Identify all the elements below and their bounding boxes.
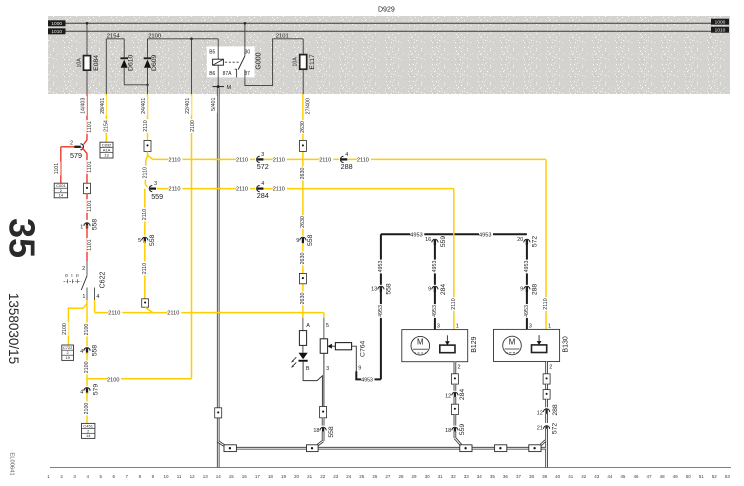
svg-text:4953: 4953	[479, 233, 491, 239]
svg-text:558: 558	[385, 283, 392, 295]
svg-text:10A: 10A	[293, 57, 299, 67]
svg-text:1101: 1101	[87, 239, 93, 250]
svg-text:16: 16	[425, 237, 431, 243]
wire lamp gnd b	[322, 431, 325, 441]
svg-text:5/401: 5/401	[211, 98, 217, 111]
inline connector 2110 b	[142, 299, 149, 307]
wire 2100 left branch	[68, 304, 87, 346]
wire 2100 band	[148, 38, 219, 40]
svg-text:49: 49	[673, 474, 679, 479]
svg-text:D609: D609	[151, 54, 158, 70]
svg-text:25: 25	[359, 474, 365, 479]
svg-text:14: 14	[216, 474, 222, 479]
svg-text:48: 48	[660, 474, 666, 479]
wire B130 g2	[545, 399, 548, 408]
wire B129 g1	[454, 384, 457, 391]
switch C622 lever	[81, 276, 87, 290]
svg-text:1: 1	[456, 323, 459, 329]
svg-text:2110: 2110	[142, 209, 148, 220]
svg-text:C622: C622	[100, 272, 107, 289]
svg-text:4: 4	[80, 349, 83, 355]
svg-text:558: 558	[91, 219, 98, 231]
svg-text:572: 572	[257, 162, 269, 171]
bus connector 1	[224, 445, 236, 452]
wire 4953 b129	[434, 240, 436, 330]
svg-text:40: 40	[555, 474, 561, 479]
ground bus seg2	[318, 447, 460, 450]
svg-text:2110: 2110	[273, 157, 285, 163]
wire 24/401	[147, 94, 149, 140]
wire B129 pin2	[454, 362, 457, 374]
svg-text:B6: B6	[209, 71, 215, 77]
svg-text:10: 10	[163, 474, 169, 479]
wire 4953 b130	[526, 240, 528, 329]
wire B129 g2	[454, 397, 457, 404]
fuse E084 10A	[84, 56, 91, 71]
wire B130 pin2	[545, 362, 548, 374]
connector 9 288	[523, 285, 531, 290]
wire 2110 drop B129	[453, 189, 455, 330]
svg-text:24: 24	[346, 474, 352, 479]
svg-text:87: 87	[244, 71, 250, 77]
svg-text:50: 50	[686, 474, 692, 479]
svg-text:2154: 2154	[103, 120, 109, 132]
connector 5 558	[141, 236, 149, 241]
svg-text:28: 28	[398, 474, 404, 479]
label 2100 m1	[84, 323, 91, 337]
svg-text:30: 30	[245, 50, 251, 56]
wire C764 pin9	[352, 346, 357, 371]
wire E084 out	[86, 70, 88, 94]
svg-text:3: 3	[326, 366, 329, 372]
svg-text:20: 20	[517, 237, 523, 243]
wire D609 column	[147, 39, 149, 59]
svg-text:27: 27	[385, 474, 391, 479]
svg-text:3: 3	[154, 181, 157, 187]
svg-text:9: 9	[296, 238, 299, 244]
net 1010 label right	[711, 27, 729, 33]
svg-text:M: M	[227, 85, 232, 91]
label 4953 e	[524, 260, 531, 274]
box C001	[54, 183, 67, 198]
svg-text:2630: 2630	[300, 168, 306, 180]
svg-text:284: 284	[459, 389, 466, 401]
svg-text:2100: 2100	[84, 403, 90, 415]
wire 2110 line3	[94, 300, 96, 313]
svg-text:2110: 2110	[108, 311, 120, 317]
svg-text:2100: 2100	[107, 377, 119, 383]
wire E117 out	[302, 69, 304, 94]
label 1101 e	[87, 238, 94, 252]
svg-text:4953: 4953	[432, 261, 438, 273]
svg-text:E117: E117	[309, 54, 316, 70]
wire B130 g1	[545, 384, 548, 390]
svg-text:42: 42	[581, 474, 587, 479]
relay lever	[238, 56, 245, 70]
svg-text:18: 18	[445, 428, 451, 434]
svg-text:47: 47	[646, 474, 652, 479]
svg-text:M: M	[417, 338, 424, 347]
svg-text:D610: D610	[128, 54, 135, 70]
label 2110 drop2	[543, 297, 550, 311]
label 4953 c	[432, 260, 439, 274]
svg-text:288: 288	[341, 162, 353, 171]
inline connector B130 b	[543, 390, 550, 400]
connector 4 288	[339, 156, 344, 164]
svg-text:12: 12	[190, 474, 196, 479]
box C451	[82, 423, 95, 438]
wire 1101 d	[86, 194, 88, 220]
svg-text:21: 21	[307, 474, 313, 479]
svg-text:284: 284	[440, 284, 447, 296]
label 5/401	[211, 96, 218, 113]
svg-text:558: 558	[91, 345, 98, 357]
svg-text:2110: 2110	[543, 298, 549, 309]
label 2110 v4	[142, 208, 149, 222]
blower motor B130	[494, 329, 560, 361]
svg-text:13: 13	[104, 153, 109, 158]
svg-text:2110: 2110	[142, 263, 148, 274]
label 2110 v3	[142, 166, 149, 180]
label 2100 m2	[84, 360, 91, 374]
LED symbol	[299, 353, 308, 359]
svg-text:B130: B130	[563, 336, 570, 352]
relay dashed link	[225, 61, 240, 63]
svg-text:2100: 2100	[190, 120, 196, 132]
svg-text:16: 16	[242, 474, 248, 479]
svg-text:579: 579	[70, 151, 82, 160]
svg-text:36: 36	[503, 474, 509, 479]
svg-text:0: 0	[65, 273, 68, 279]
connector 579 pin2	[79, 143, 84, 151]
label 4953 b	[378, 304, 385, 318]
bus connector 4	[495, 445, 507, 452]
relay contact 87A	[236, 69, 238, 77]
wire pin 5	[323, 313, 325, 318]
svg-text:559: 559	[440, 236, 447, 248]
inline connector B129 a	[451, 374, 458, 384]
svg-text:1101: 1101	[87, 200, 93, 211]
svg-text:1010: 1010	[715, 28, 726, 34]
svg-text:4953: 4953	[524, 305, 530, 317]
svg-text:2110: 2110	[169, 187, 181, 193]
relay pin B5 wire	[217, 39, 219, 59]
switch pin 1 wire	[86, 288, 88, 301]
svg-text:B: B	[306, 366, 310, 372]
svg-text:19: 19	[281, 474, 287, 479]
label 27/400	[305, 96, 312, 116]
svg-text:C764: C764	[360, 340, 367, 356]
label 4953 a	[378, 260, 385, 274]
svg-text:17: 17	[255, 474, 261, 479]
svg-text:2100: 2100	[84, 324, 90, 336]
labels 2110 line2	[169, 186, 183, 192]
svg-text:284: 284	[257, 191, 269, 200]
label 2630 b	[300, 167, 307, 181]
box C722	[62, 345, 74, 360]
connector 4 558	[83, 346, 91, 351]
wire 2154	[105, 39, 107, 94]
label 2100 r	[190, 119, 197, 133]
svg-text:31: 31	[438, 474, 444, 479]
net 1010 label left	[48, 28, 66, 34]
wire 2100 drop 26/401	[191, 39, 193, 94]
svg-text:559: 559	[459, 424, 466, 436]
svg-text:4953: 4953	[361, 377, 373, 383]
label 2110 v1	[143, 119, 150, 133]
fuse E117 10A	[300, 55, 307, 70]
svg-text:E084: E084	[93, 55, 100, 71]
wire 2110 join	[145, 307, 153, 312]
svg-text:288: 288	[552, 404, 559, 416]
svg-text:558: 558	[149, 234, 156, 246]
svg-text:41: 41	[568, 474, 574, 479]
LED arrows	[292, 357, 297, 362]
wire crossing overdraw	[214, 158, 224, 160]
svg-text:1101: 1101	[87, 161, 93, 172]
svg-text:45: 45	[620, 474, 626, 479]
svg-text:34: 34	[477, 474, 483, 479]
svg-text:1: 1	[80, 224, 83, 230]
label 1101 c	[87, 160, 94, 174]
label 1101 branch	[54, 162, 61, 176]
wire B130 g3	[545, 414, 548, 423]
svg-text:3: 3	[437, 323, 440, 329]
label 2100 lb	[62, 322, 69, 336]
relay pin B6 wire	[217, 65, 219, 86]
switch C622 pin2 wire	[86, 261, 88, 276]
svg-text:572: 572	[551, 423, 558, 435]
wire 2110 drop B130	[545, 159, 547, 329]
wire 4953 link	[356, 371, 381, 379]
svg-text:51: 51	[699, 474, 705, 479]
svg-text:4953: 4953	[432, 305, 438, 317]
svg-text:I: I	[71, 273, 72, 279]
connector 18 559	[451, 426, 459, 431]
label 2110 v5	[142, 262, 149, 276]
component C764	[335, 343, 351, 350]
svg-text:2110: 2110	[143, 120, 149, 131]
bus connector 3	[460, 445, 472, 452]
svg-text:2100: 2100	[62, 323, 68, 335]
svg-text:2110: 2110	[273, 187, 285, 193]
svg-text:14: 14	[59, 192, 64, 197]
resistor lamp A	[299, 331, 306, 346]
svg-text:II: II	[76, 273, 79, 279]
wire B130 g4	[545, 429, 548, 468]
wire E084 feed	[86, 23, 88, 55]
svg-text:A: A	[306, 323, 310, 329]
svg-text:4953: 4953	[378, 261, 384, 273]
label 4953 f	[524, 304, 531, 318]
ground bus seg5	[541, 447, 546, 450]
svg-text:13: 13	[371, 286, 377, 292]
wire 4953 vert main	[380, 234, 382, 379]
box C832	[100, 142, 113, 158]
wire B129 g4	[454, 431, 457, 438]
svg-text:2630: 2630	[300, 253, 306, 265]
svg-text:53: 53	[725, 474, 731, 479]
svg-text:2110: 2110	[169, 157, 181, 163]
svg-text:558: 558	[307, 234, 314, 246]
svg-text:2630: 2630	[300, 216, 306, 228]
wire 2100 m3	[86, 392, 88, 423]
svg-text:35: 35	[490, 474, 496, 479]
label 14/403	[80, 96, 87, 116]
svg-text:M: M	[509, 337, 516, 346]
relay M ground	[213, 86, 225, 88]
baseline	[50, 467, 731, 469]
svg-text:15: 15	[229, 474, 235, 479]
diode D610	[120, 57, 128, 59]
svg-text:14: 14	[86, 433, 91, 438]
svg-text:D929: D929	[378, 7, 395, 14]
wire 2110 v2	[147, 151, 149, 156]
bus connector 5	[529, 445, 541, 452]
label 2630 d	[300, 252, 307, 266]
label 1101 a	[87, 120, 94, 134]
inline connector 2110 a	[144, 140, 151, 151]
svg-text:39: 39	[542, 474, 548, 479]
svg-text:22/401: 22/401	[185, 98, 191, 114]
relay G000 body	[207, 46, 255, 77]
svg-text:EL00641: EL00641	[9, 452, 15, 475]
svg-text:33: 33	[464, 474, 470, 479]
wire 2100 m2	[86, 352, 88, 386]
wire 2110 v4	[144, 189, 146, 236]
wire 26/401	[191, 94, 193, 379]
wire 1101 b	[82, 147, 88, 154]
svg-text:2100: 2100	[148, 33, 161, 39]
svg-text:19: 19	[65, 355, 70, 360]
svg-text:28/401: 28/401	[100, 98, 106, 114]
svg-text:2101: 2101	[276, 33, 289, 39]
svg-text:5: 5	[326, 323, 329, 329]
connector 4 284	[255, 185, 260, 193]
wire 2110 line2	[157, 188, 454, 190]
svg-text:29: 29	[411, 474, 417, 479]
wire 14/403	[86, 94, 88, 140]
svg-text:9: 9	[520, 286, 523, 292]
svg-text:3: 3	[261, 152, 264, 158]
label 2154 v	[103, 119, 110, 133]
wire E117 feed	[302, 39, 304, 55]
svg-text:2110: 2110	[236, 157, 248, 163]
svg-text:2: 2	[82, 266, 85, 272]
svg-text:1000: 1000	[715, 20, 726, 26]
svg-text:22: 22	[320, 474, 326, 479]
label 24/401	[141, 96, 148, 116]
inline connector B129 b	[451, 404, 458, 414]
wire 2110 branch1	[148, 155, 153, 159]
label 26/401	[185, 96, 192, 116]
label 28/401	[100, 96, 107, 116]
svg-text:44: 44	[607, 474, 613, 479]
svg-text:30: 30	[425, 474, 431, 479]
svg-text:32: 32	[451, 474, 457, 479]
wire 4953 top	[381, 233, 527, 235]
net 2101	[245, 39, 303, 86]
connector 16 559	[431, 238, 439, 243]
svg-text:12: 12	[445, 394, 451, 400]
svg-text:4: 4	[261, 181, 264, 187]
blower motor B129	[402, 330, 468, 362]
wire 1101 branch	[61, 146, 75, 148]
svg-text:1: 1	[548, 323, 551, 329]
net 1000 label right	[711, 19, 729, 25]
svg-text:4: 4	[345, 152, 348, 158]
svg-text:10A: 10A	[76, 58, 82, 68]
svg-text:13: 13	[203, 474, 209, 479]
wire to conn 579	[82, 140, 88, 147]
wire pin B path	[303, 362, 322, 407]
connector 21 572	[543, 424, 551, 429]
label 4953 link	[361, 377, 374, 383]
relay pin 30 wire	[244, 23, 246, 56]
wire 2100 main	[86, 300, 88, 347]
svg-text:26: 26	[372, 474, 378, 479]
connector 1 558	[83, 221, 91, 226]
svg-text:1101: 1101	[87, 121, 93, 132]
wire to conn 559	[145, 185, 149, 189]
svg-text:1358030/15: 1358030/15	[6, 293, 21, 364]
label 1101 d	[87, 199, 94, 213]
wire 5/401 bus link	[218, 442, 224, 446]
ground bus seg1	[236, 447, 306, 450]
wire pin 3 lamp	[323, 353, 325, 406]
svg-text:2630: 2630	[300, 121, 306, 133]
svg-text:2110: 2110	[357, 157, 369, 163]
inline connector 2630 b	[299, 273, 306, 283]
svg-text:2110: 2110	[451, 298, 457, 309]
connector 9 558	[299, 236, 307, 241]
labels 2110 line3	[108, 310, 122, 316]
svg-text:1: 1	[82, 294, 85, 300]
inline connector B130 a	[543, 374, 550, 384]
inline connector lamp	[320, 407, 327, 418]
gray harness band	[48, 16, 730, 94]
svg-text:4953: 4953	[378, 305, 384, 317]
diode D609	[144, 57, 152, 59]
svg-text:9: 9	[358, 366, 361, 372]
svg-text:1101: 1101	[54, 163, 60, 174]
svg-text:87A: 87A	[223, 71, 233, 77]
svg-text:288: 288	[532, 284, 539, 296]
connector 12 284	[451, 391, 459, 396]
wire 28/401	[105, 94, 107, 142]
label 2630 a	[300, 120, 307, 134]
svg-text:B5: B5	[209, 50, 215, 56]
svg-text:18: 18	[268, 474, 274, 479]
connector 9 284	[431, 285, 439, 290]
label 2630 e	[300, 292, 307, 306]
wire B130 bus link	[541, 441, 546, 445]
svg-text:5: 5	[138, 238, 141, 244]
svg-text:11: 11	[177, 474, 182, 479]
svg-text:559: 559	[151, 192, 163, 201]
wire lamp mid	[302, 345, 304, 352]
svg-text:B129: B129	[471, 336, 478, 352]
ground bus seg3	[472, 447, 495, 450]
svg-text:23: 23	[333, 474, 339, 479]
label 2100 horiz	[107, 377, 121, 383]
net 1000 bus line	[66, 22, 712, 24]
relay pin 87 wire	[244, 70, 246, 78]
svg-text:2110: 2110	[167, 311, 179, 317]
svg-text:1000: 1000	[51, 21, 62, 27]
wire D610 out	[123, 68, 125, 85]
net 1000 label left	[48, 20, 66, 26]
